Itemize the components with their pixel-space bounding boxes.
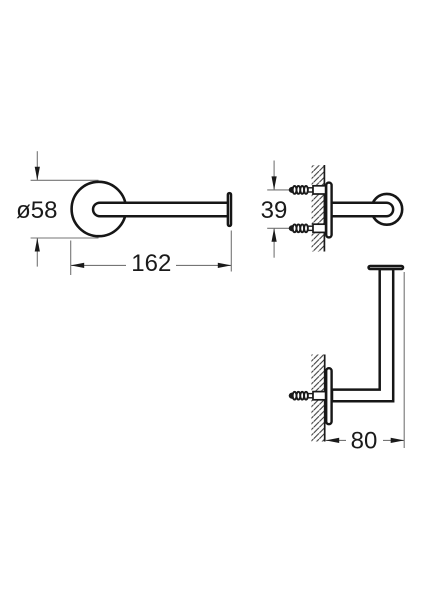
dimension ext line right (80) [403,272,405,448]
svg-text:162: 162 [131,250,171,277]
wall plate edge view [326,183,331,238]
wall surface line (side view) [323,165,325,252]
svg-text:39: 39 [261,197,288,224]
label 162 background [126,252,176,273]
wall section hatching (lower view) [311,355,324,442]
dimension ext line bottom (Ø58) [31,237,99,239]
dimension line upper segment (Ø58) [36,151,38,180]
dimension ext line top (39) [267,189,313,191]
wall plate edge view (lower) [326,368,331,424]
svg-text:80: 80 [351,427,378,454]
dimension line (80) [326,439,405,441]
arrowhead left (80) [326,438,340,443]
arrowhead left (162) [71,263,85,268]
wall surface line (lower view) [324,355,326,442]
end disc edge view (vertical bar) [228,193,231,226]
arrowhead down (39) [272,176,277,190]
dimension line lower segment (39) [273,228,275,257]
spare roll holder L-rod [332,269,393,401]
end disc face view (ring) [371,194,402,225]
dimension line upper segment (39) [273,161,275,190]
roll holder bar front view [93,203,229,217]
screw upper (side view) [289,186,326,194]
arrowhead up (Ø58) [35,238,40,252]
dimension line (162) [71,264,232,266]
arrowhead right (162) [218,263,232,268]
arrowhead right (80) [391,438,405,443]
wall plate front view (circle) [72,182,126,236]
arrowhead down (Ø58) [35,167,40,181]
holder rod side view [332,203,393,217]
arrowhead up (39) [272,228,277,242]
label 80 background [346,428,383,450]
screw (lower view) [289,392,326,400]
dimension line lower segment (Ø58) [36,238,38,267]
dimension ext line top (Ø58) [31,179,99,181]
svg-text:ø58: ø58 [16,197,57,224]
dimension ext line bottom (39) [267,227,313,229]
dimension ext line right (162) [230,231,232,272]
wall section hatching (side view) [312,165,325,252]
dimension ext line left (162) [70,241,72,276]
screw lower (side view) [289,224,326,232]
top disc edge view (horizontal bar) [369,266,403,269]
